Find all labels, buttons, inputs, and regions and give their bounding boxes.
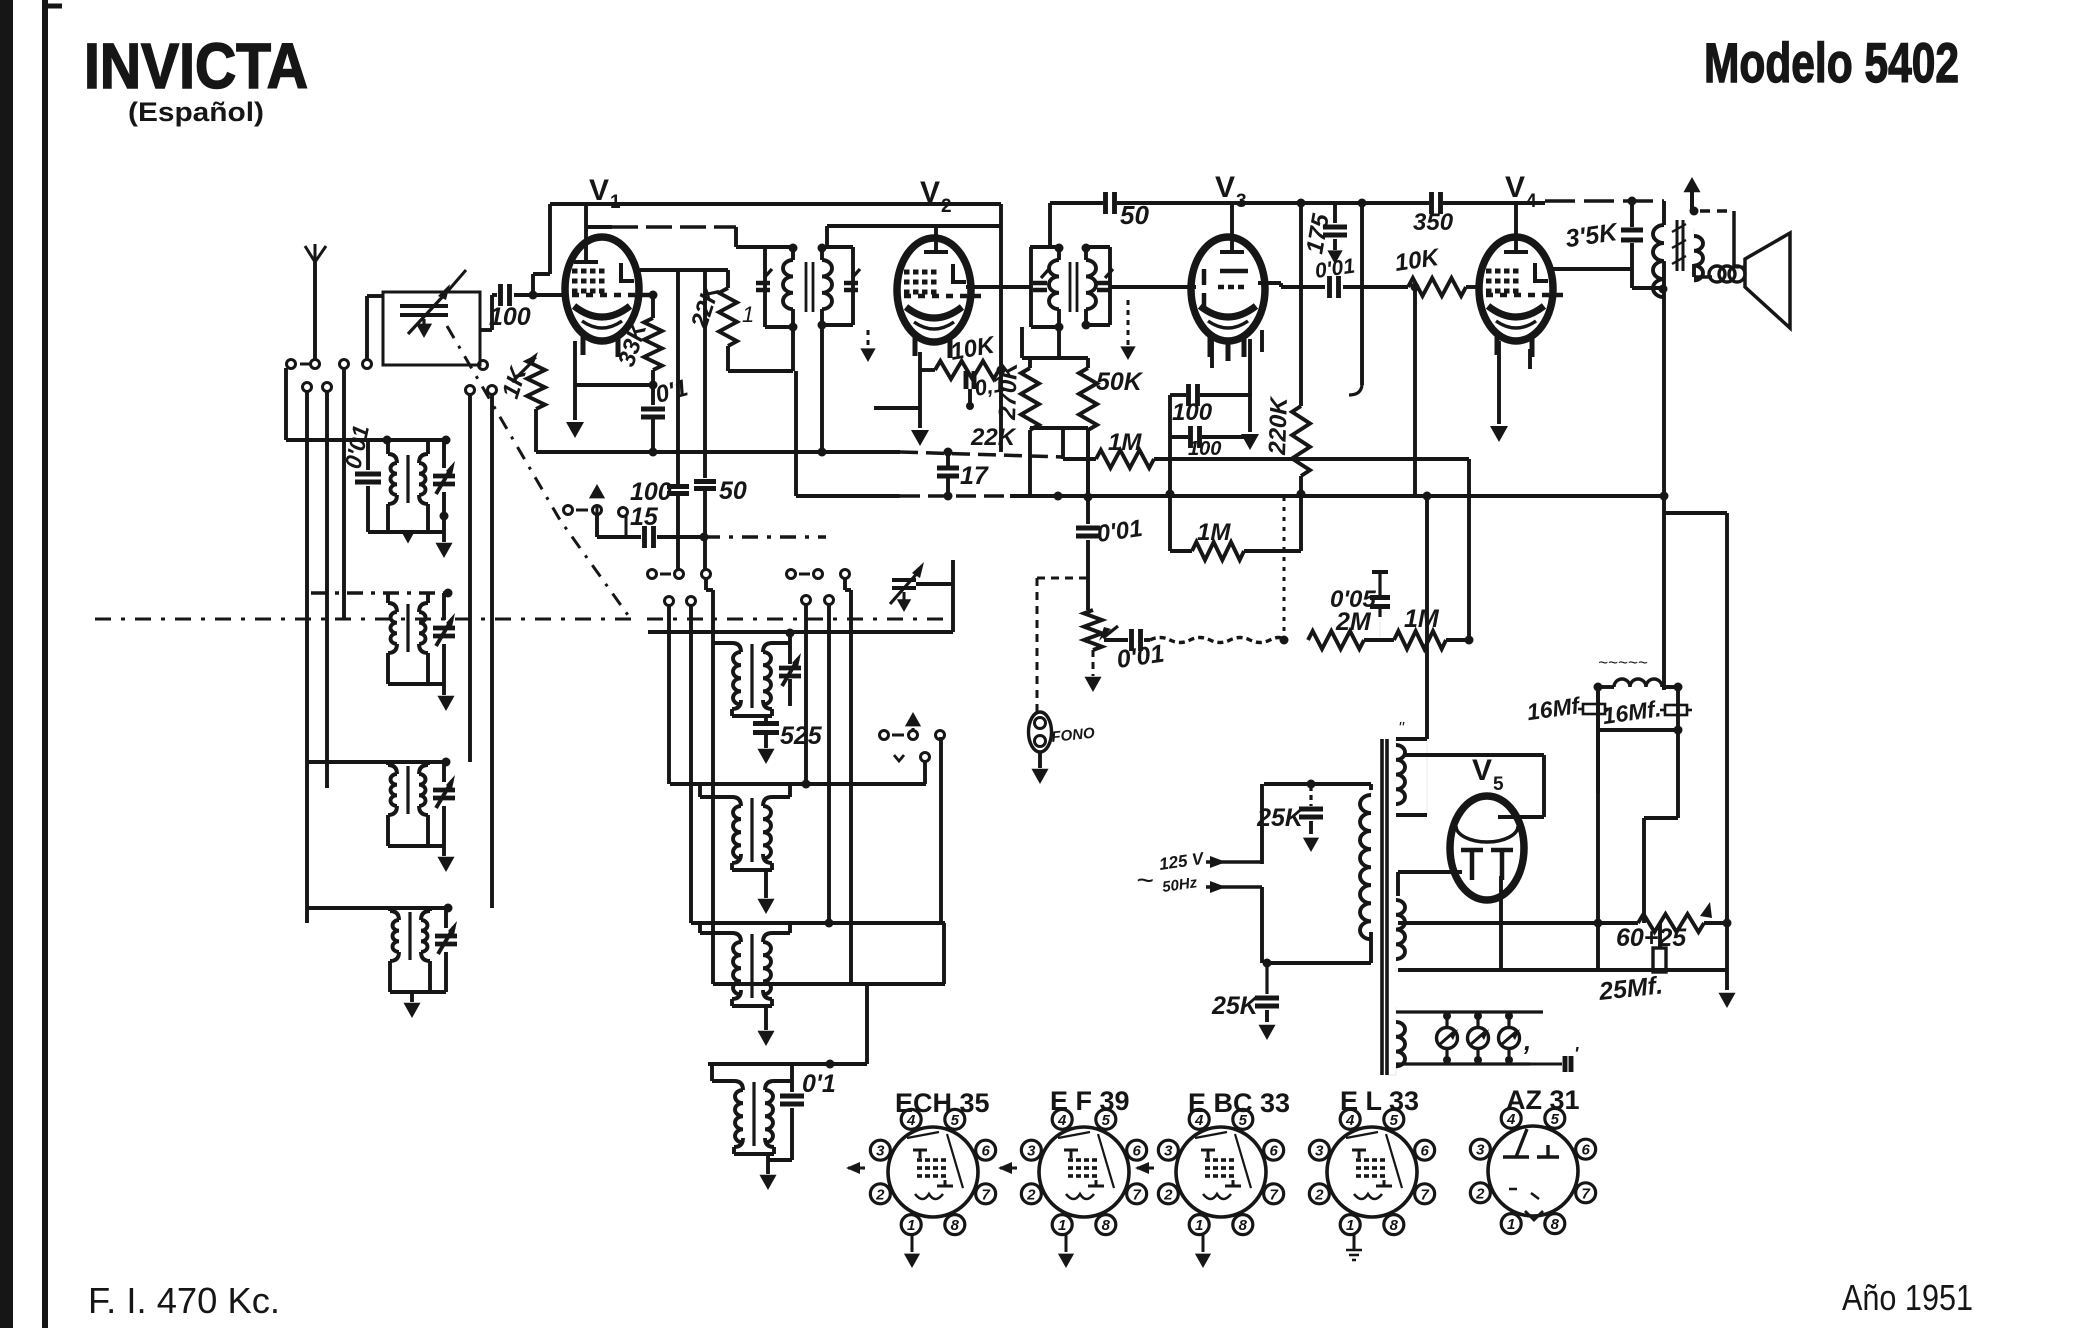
svg-text:100: 100 xyxy=(1172,399,1213,426)
wire S4 link xyxy=(923,761,927,784)
junction osc T1 top xyxy=(786,629,795,638)
label 2M xyxy=(1335,608,1372,636)
wire S2 to cap15 xyxy=(597,508,641,538)
svg-text:0'05: 0'05 xyxy=(1330,586,1376,613)
caption F.I. 470 Kc. xyxy=(88,1280,280,1321)
svg-text:~~~~~: ~~~~~ xyxy=(1598,653,1648,672)
osc box variable cap xyxy=(890,562,924,612)
wire 220K drop xyxy=(1299,203,1303,406)
mains input arrows xyxy=(1206,856,1262,893)
wire osc drop x807 xyxy=(804,604,808,784)
svg-text:270K: 270K xyxy=(994,360,1023,421)
pilot lamp bus top xyxy=(1396,1010,1543,1013)
label 25K upper xyxy=(1256,804,1305,832)
speaker horn xyxy=(1745,233,1790,328)
socket AZ31 label xyxy=(1506,1085,1580,1115)
wire cap100 left tie xyxy=(1168,395,1172,551)
junction 25K upper xyxy=(1307,780,1316,789)
wire V1 cathode xyxy=(566,341,584,438)
capacitor 50 padder xyxy=(694,270,716,570)
wire S1 drop x307 xyxy=(305,391,309,923)
PT primary top wire xyxy=(1264,784,1371,790)
L3 top feed xyxy=(307,758,451,767)
wire osc drop x848 xyxy=(845,578,851,984)
L1 core arrow xyxy=(403,532,413,541)
osc box cap tie xyxy=(916,582,953,586)
oscillator box outline xyxy=(648,560,953,632)
socket EL33 ground xyxy=(1346,1234,1362,1260)
PT heater leads xyxy=(1395,896,1397,972)
wire V1 grid-cap stem xyxy=(574,204,598,262)
switch S4 contacts xyxy=(880,731,945,740)
T2 osc wiring xyxy=(700,784,790,898)
resistor 10K V2 xyxy=(920,361,1001,379)
PT lamp winding xyxy=(1396,1007,1405,1066)
label 0'1 V1 xyxy=(653,374,691,408)
output transformer secondary xyxy=(1694,228,1703,280)
capacitor 100 antenna series xyxy=(501,284,567,306)
T1 osc var cap xyxy=(779,653,801,686)
wire 10K to V4 xyxy=(1466,285,1482,289)
label 10K coupling xyxy=(1393,244,1442,277)
svg-text:100: 100 xyxy=(630,478,672,506)
svg-text:3: 3 xyxy=(1027,1143,1036,1160)
svg-text:6: 6 xyxy=(1269,1143,1278,1160)
T2 secondary loop xyxy=(1086,247,1110,325)
svg-text:3: 3 xyxy=(876,1143,885,1160)
wire 25Mf cap tie xyxy=(1659,970,1661,972)
svg-text:4: 4 xyxy=(1057,1112,1067,1129)
wire V3 diode stub xyxy=(1210,339,1214,368)
svg-text:525: 525 xyxy=(780,722,823,750)
switch S3 right contacts row2 xyxy=(802,596,834,605)
lamp end cap xyxy=(1530,1044,1579,1072)
label 1M row2 xyxy=(1197,519,1231,546)
label V1 xyxy=(589,174,621,213)
wire choke to V5 right xyxy=(1498,755,1544,817)
T4 osc wiring xyxy=(712,1064,792,1174)
speaker field dash xyxy=(1700,211,1734,267)
svg-text:3: 3 xyxy=(1164,1143,1173,1160)
label 0'01 L1 xyxy=(339,423,374,471)
label 1M third xyxy=(1404,605,1440,633)
wire bus to B+ corner xyxy=(1664,513,1727,923)
tube V4 EL33 xyxy=(1479,237,1565,357)
wire HV to V5 left plate xyxy=(1398,755,1544,896)
label 100 row2 xyxy=(1188,438,1221,460)
L4 var cap xyxy=(435,921,457,954)
wire S1 drop x327 xyxy=(325,391,329,788)
label 175 xyxy=(1301,211,1335,256)
wire rail hook to antenna node xyxy=(533,204,550,295)
L3 ground xyxy=(437,846,454,872)
switch S2 mini contacts xyxy=(564,506,602,515)
dial cord diagonal into trimmer xyxy=(447,270,466,292)
antenna coil L4 xyxy=(390,908,430,992)
wire osc bus y1064 xyxy=(708,1062,867,1066)
T1 primary cap xyxy=(756,269,772,290)
L1 top feed xyxy=(286,436,451,445)
svg-text:V: V xyxy=(1505,171,1525,204)
tuning gang dash-dot diagonal xyxy=(447,326,630,618)
title INVICTA xyxy=(84,30,308,102)
wire S1 left drop xyxy=(284,368,288,440)
wire trimmer to C100 xyxy=(480,295,497,330)
resistor 60+25 xyxy=(1598,902,1727,932)
socket EL33 label xyxy=(1340,1086,1419,1116)
socket ECH35 ground xyxy=(904,1234,920,1268)
T1 secondary cap xyxy=(844,269,860,290)
antenna terminal xyxy=(311,360,320,369)
fono dashed drop xyxy=(1036,578,1039,712)
page left scan border bar xyxy=(0,0,13,1328)
svg-text:6: 6 xyxy=(1420,1143,1429,1160)
fono jack xyxy=(1029,712,1052,784)
label 50 padder xyxy=(719,477,747,505)
PT heater winding xyxy=(1396,900,1405,959)
wire 22K bottom run xyxy=(728,369,793,373)
svg-text:350: 350 xyxy=(1413,209,1454,236)
chassis arrow S2 xyxy=(589,484,605,514)
capacitor 50 xyxy=(1106,192,1150,230)
wire V2 cath row left xyxy=(874,406,920,410)
wire AVC run y452 xyxy=(536,452,1064,457)
svg-text:'': '' xyxy=(1398,720,1405,737)
label V2 xyxy=(920,176,952,217)
antenna coil L1 xyxy=(388,440,428,532)
svg-text:7: 7 xyxy=(1132,1186,1141,1203)
label 25Mf xyxy=(1597,971,1664,1006)
label V5 xyxy=(1472,754,1504,795)
capacitor 25K lower xyxy=(1255,963,1279,1040)
chassis arrow S4 xyxy=(905,712,921,731)
junction 33K top xyxy=(649,291,658,300)
svg-text:25K: 25K xyxy=(1211,992,1260,1020)
pilot lamp bus bottom xyxy=(1396,1062,1530,1065)
T4 osc ground xyxy=(759,1175,776,1190)
svg-text:1: 1 xyxy=(742,302,754,327)
wire x1469 drop xyxy=(1467,459,1471,640)
terminal pair mid-left xyxy=(466,386,497,395)
wire OPT bottom drop xyxy=(1662,289,1666,690)
svg-text:5: 5 xyxy=(1390,1112,1399,1129)
wire 25Mf bottom xyxy=(1398,968,1727,972)
capacitor 175 bypass xyxy=(1323,203,1347,264)
socket ECH35 xyxy=(870,1109,995,1234)
wire 10K node drop xyxy=(1411,283,1420,497)
wire osc drop x713 xyxy=(706,578,713,984)
L4 ground xyxy=(403,992,420,1018)
wire V3grid cap drop xyxy=(1076,428,1100,610)
label 16Mf first xyxy=(1525,692,1583,725)
svg-text:V: V xyxy=(1215,171,1235,204)
socket EBC33 xyxy=(1158,1109,1283,1234)
wire T2 primary bottom drop xyxy=(1057,327,1061,358)
svg-text:2: 2 xyxy=(1163,1186,1173,1203)
svg-text:8: 8 xyxy=(1102,1217,1111,1234)
label 100 row1 xyxy=(1172,399,1213,426)
svg-text:7: 7 xyxy=(981,1186,990,1203)
label 15 xyxy=(630,503,659,531)
label 33K xyxy=(613,318,653,370)
L3 wiring xyxy=(388,762,444,846)
junction bus x1672 xyxy=(1660,492,1669,501)
capacitor 0'05 xyxy=(1370,572,1390,640)
svg-text:1: 1 xyxy=(907,1217,915,1234)
svg-text:4: 4 xyxy=(906,1112,916,1129)
T1 primary loop xyxy=(765,247,793,327)
L2 wiring xyxy=(388,593,444,684)
svg-text:1: 1 xyxy=(1058,1217,1066,1234)
L1 bottom tie xyxy=(368,530,444,534)
label 22K second xyxy=(970,424,1017,451)
wire cap100 row1 xyxy=(1170,384,1252,406)
tuning gang dash-dot horizontal xyxy=(95,618,950,621)
T2 secondary cap xyxy=(1097,269,1113,290)
subtitle (Espanol) xyxy=(128,97,264,127)
wire 60+25 left xyxy=(1596,687,1600,970)
svg-text:3: 3 xyxy=(1315,1143,1324,1160)
svg-text:INVICTA: INVICTA xyxy=(84,30,308,102)
padder cap 525 xyxy=(753,716,779,748)
junction choke left xyxy=(1594,683,1603,692)
svg-text:4: 4 xyxy=(1345,1112,1355,1129)
socket EBC33 ground xyxy=(1195,1234,1211,1268)
junction osc T2 top xyxy=(802,780,811,789)
capacitor 100 padder xyxy=(667,270,689,570)
wire osc bus y784 xyxy=(670,782,926,786)
svg-text:6: 6 xyxy=(981,1143,990,1160)
osc coil T1 xyxy=(732,643,772,709)
svg-text:50K: 50K xyxy=(1096,368,1144,396)
svg-text:7: 7 xyxy=(1581,1185,1590,1202)
wire trimmer left leg xyxy=(367,296,383,360)
label 1M row1 xyxy=(1108,429,1142,456)
svg-text:1: 1 xyxy=(1195,1217,1203,1234)
T3 osc ground xyxy=(757,1031,774,1046)
svg-text:6: 6 xyxy=(1581,1142,1590,1159)
osc coil T2 xyxy=(732,797,772,863)
T1 core xyxy=(806,262,813,312)
label 50K xyxy=(1096,368,1144,396)
wire S4 right drop xyxy=(941,737,944,984)
svg-text:7: 7 xyxy=(1420,1186,1429,1203)
svg-text:220K: 220K xyxy=(1264,395,1293,456)
wire V4 grid-cap stem xyxy=(1504,203,1528,252)
svg-text:5: 5 xyxy=(1102,1112,1111,1129)
L4 wiring xyxy=(390,908,446,992)
wire osc right drop x867 xyxy=(865,984,869,1064)
svg-text:17: 17 xyxy=(960,462,989,490)
resistor 2M xyxy=(1308,631,1394,649)
wire osc drop x670 xyxy=(667,605,671,784)
T2 primary loop xyxy=(1031,247,1059,327)
resistor 50K xyxy=(1079,358,1097,494)
wire osc drop x691 xyxy=(689,605,693,923)
junction T2 top xyxy=(1055,244,1091,253)
wire screen drop x1362 xyxy=(1349,199,1367,396)
svg-text:15: 15 xyxy=(630,503,659,531)
PT HV top lead xyxy=(1396,720,1427,815)
svg-text:100: 100 xyxy=(489,303,531,331)
potentiometer 1K xyxy=(512,352,545,452)
wire 50K mid tie xyxy=(1030,428,1088,459)
lamp comma mark xyxy=(1523,1026,1531,1056)
label 525 xyxy=(780,722,823,750)
socket EF39 label xyxy=(1050,1086,1130,1116)
junction 33K bus xyxy=(649,448,658,457)
terminal under trimmer right xyxy=(479,361,488,370)
label 60+25 xyxy=(1616,924,1687,952)
T1 primary coil xyxy=(783,247,793,327)
svg-text:V: V xyxy=(1472,754,1492,787)
svg-text:8: 8 xyxy=(1239,1217,1248,1234)
junction 25K lower xyxy=(1263,959,1272,968)
filter choke scribble xyxy=(1598,653,1648,672)
L1 var cap wiring xyxy=(440,440,449,532)
capacitor 17 xyxy=(937,448,989,497)
antenna coil L2 xyxy=(388,593,428,684)
wire drop x470 xyxy=(468,395,472,762)
resistor 22K osc anode xyxy=(719,270,737,371)
wire rail V4 to OPT xyxy=(1545,197,1664,206)
svg-text:(Español): (Español) xyxy=(128,97,264,127)
bus main horizontal xyxy=(796,494,1664,498)
wire top rail V1-V2 xyxy=(550,204,1001,452)
socket pointer ECH35 xyxy=(846,1162,866,1174)
pilot lamp 1 xyxy=(1437,1012,1459,1064)
wire V1 screen line xyxy=(586,227,765,247)
L1 var cap xyxy=(433,461,455,494)
wire S1 drop x344 xyxy=(342,368,346,619)
svg-text:V: V xyxy=(589,174,609,207)
junction v3grid bus xyxy=(1084,493,1093,502)
svg-text:5: 5 xyxy=(951,1112,960,1129)
label 100 antenna xyxy=(489,303,531,331)
socket AZ31 xyxy=(1470,1108,1595,1233)
label FONO xyxy=(1051,725,1096,746)
label 0'05 xyxy=(1330,586,1376,613)
wire 16Mf bottom tie xyxy=(1598,687,1678,793)
title Modelo 5402 xyxy=(1704,31,1959,94)
svg-text:1: 1 xyxy=(1507,1216,1515,1233)
tube V3 EBC33 xyxy=(1191,237,1265,361)
svg-text:50: 50 xyxy=(719,477,747,505)
antenna xyxy=(305,244,326,360)
ground right bottom xyxy=(1718,923,1735,1008)
wire top rail 50-350 xyxy=(1030,203,1545,247)
switch S1 contacts row2 xyxy=(303,383,332,392)
PT lamp winding bottom xyxy=(1387,1066,1396,1075)
resistor 10K coupling xyxy=(1408,278,1466,296)
svg-text:': ' xyxy=(1574,1044,1579,1064)
junction T1 sec bus xyxy=(818,448,827,457)
L2 top feed dashdot xyxy=(311,589,453,598)
pilot lamp 2 xyxy=(1468,1012,1490,1064)
label 22K rot xyxy=(686,280,726,333)
label 10K V2 xyxy=(948,331,998,366)
tube V2 EF39 xyxy=(897,238,983,358)
socket EL33 xyxy=(1309,1109,1434,1234)
label 100 padder xyxy=(630,478,672,506)
wire T1 primary bottom drop xyxy=(793,327,796,496)
svg-text:Modelo 5402: Modelo 5402 xyxy=(1704,31,1959,94)
label 0'01 volume xyxy=(1095,515,1144,548)
socket EF39 ground xyxy=(1058,1234,1074,1268)
tube V1 ECH35 xyxy=(565,237,651,357)
wire AVC dotted drop xyxy=(1283,497,1286,640)
OPT chassis arrow xyxy=(1683,177,1700,216)
wire V1 cathode to 33K xyxy=(575,381,658,390)
junction bus x1058 xyxy=(1054,492,1063,501)
svg-text:1M: 1M xyxy=(1197,519,1231,546)
wire AVC 1M row2 xyxy=(1170,542,1301,560)
junction cap17 bus xyxy=(944,492,953,501)
fono dashed box top xyxy=(1037,577,1088,580)
label 0'1 T4 xyxy=(802,1070,836,1098)
switch S3 left contacts row2 xyxy=(665,597,696,606)
svg-text:22K: 22K xyxy=(970,424,1017,451)
svg-text:5: 5 xyxy=(1239,1112,1248,1129)
volume pot ground xyxy=(1084,650,1101,692)
pilot lamp 3 xyxy=(1499,1012,1521,1064)
wire V5 top boundary xyxy=(1404,739,1427,755)
svg-text:5: 5 xyxy=(1551,1111,1560,1128)
wire B+ drop to 60+25 xyxy=(1644,730,1678,923)
label 3'5K xyxy=(1564,218,1621,253)
trimmer ground xyxy=(416,319,432,338)
wire cap100 row2 xyxy=(1170,426,1245,448)
wire V4 cathode xyxy=(1490,341,1508,442)
capacitor 3'5K xyxy=(1621,201,1643,269)
power transformer core xyxy=(1382,739,1387,1075)
switch S4 row2 xyxy=(894,753,930,762)
speaker voice coil xyxy=(1694,266,1745,282)
svg-text:7: 7 xyxy=(1269,1186,1278,1203)
caption Ano 1951 xyxy=(1842,1277,1973,1318)
wire coupling row xyxy=(1281,276,1408,298)
svg-text:5: 5 xyxy=(1493,774,1504,795)
svg-text:4: 4 xyxy=(1526,191,1537,212)
junction 16mf bottom xyxy=(1674,726,1683,735)
antenna coil L3 xyxy=(388,762,428,846)
wire x1427 drop xyxy=(1425,497,1429,739)
PT primary coil xyxy=(1360,790,1371,956)
label 1K xyxy=(497,363,533,402)
label 125V 50Hz xyxy=(1136,849,1206,897)
T1 ground dashed xyxy=(860,330,875,362)
svg-text:1: 1 xyxy=(610,192,621,213)
L1 ground xyxy=(435,532,452,558)
volume out cap 0'01 xyxy=(1104,629,1150,651)
svg-text:2: 2 xyxy=(1314,1186,1324,1203)
socket ECH35 label xyxy=(895,1088,990,1118)
capacitor 25K upper xyxy=(1299,786,1323,852)
capacitor 25Mf xyxy=(1653,923,1666,972)
osc coil T4 xyxy=(734,1081,774,1147)
T2 osc ground xyxy=(757,899,774,914)
svg-text:F. I. 470 Kc.: F. I. 470 Kc. xyxy=(88,1280,280,1321)
svg-text:8: 8 xyxy=(1551,1216,1560,1233)
wire 220K below bus xyxy=(1299,494,1303,551)
socket pointer EF39 xyxy=(998,1162,1018,1174)
T1 secondary loop xyxy=(822,247,853,325)
junction T1 bottom xyxy=(789,321,827,332)
label 0'01 out xyxy=(1115,640,1166,674)
wire V3 right stub xyxy=(1260,330,1264,352)
antenna trimmer box xyxy=(383,292,480,365)
resistor 270K xyxy=(1021,358,1039,494)
